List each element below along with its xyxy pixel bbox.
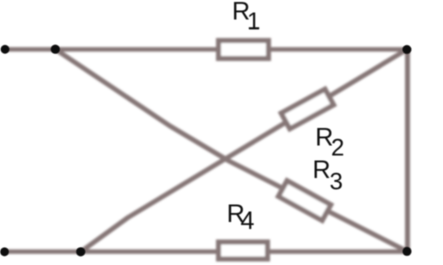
node terminal top-left	[1, 45, 10, 54]
wire right vertical	[405, 49, 410, 251]
svg-text:4: 4	[241, 207, 255, 235]
wire bottom horizontal	[5, 249, 408, 254]
node B bottom junction	[76, 247, 85, 256]
svg-text:R: R	[313, 156, 331, 184]
resistor R3	[278, 181, 330, 221]
svg-text:3: 3	[330, 168, 343, 195]
svg-text:2: 2	[331, 134, 344, 161]
wire diagonal node-B to top-right	[81, 50, 407, 252]
resistor R1	[219, 41, 269, 59]
node top-right junction	[402, 45, 411, 54]
resistor R2	[281, 89, 334, 129]
node A top junction	[51, 45, 60, 54]
node terminal bottom-left	[0, 247, 9, 256]
resistor R4	[219, 242, 268, 259]
svg-text:1: 1	[247, 8, 260, 35]
wire diagonal node-A to bottom-right	[55, 49, 407, 251]
wire top horizontal	[5, 47, 408, 52]
node bottom-right junction	[403, 247, 412, 256]
